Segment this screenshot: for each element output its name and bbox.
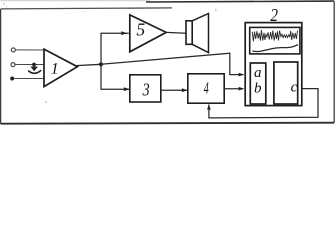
svg-text:4: 4 bbox=[204, 79, 209, 98]
svg-text:c: c bbox=[291, 79, 298, 95]
svg-text:a: a bbox=[254, 65, 262, 81]
svg-text:b: b bbox=[254, 81, 262, 97]
svg-text:3: 3 bbox=[142, 80, 150, 100]
svg-text:1: 1 bbox=[51, 60, 59, 77]
svg-text:5: 5 bbox=[136, 20, 145, 40]
